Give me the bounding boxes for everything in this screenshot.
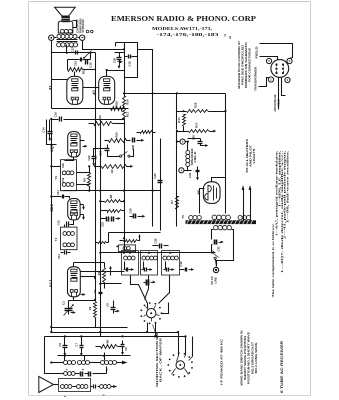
wire S1 down leads <box>147 323 149 333</box>
ground arrow right of 6Q7 <box>83 146 85 148</box>
capacitor C29 <box>133 214 135 219</box>
coil L6 <box>100 385 104 389</box>
svg-text:C28: C28 <box>131 144 135 150</box>
capacitor antenna C2 <box>93 385 95 389</box>
wire left column to bottom <box>51 120 53 333</box>
resistor R4 <box>101 345 118 349</box>
wire 41 plates top <box>74 72 76 77</box>
antenna triangle <box>39 377 54 393</box>
wire T5 secondary leads <box>212 230 214 240</box>
capacitor row y373 b <box>88 372 90 377</box>
svg-text:R17: R17 <box>195 122 199 128</box>
wire transformer right lead <box>78 37 80 39</box>
power transformer T5 secondary coil <box>214 225 218 229</box>
wire switch S1 leads <box>131 276 148 309</box>
svg-text:1—80, full-wave rectifier.: 1—80, full-wave rectifier. <box>285 151 289 223</box>
svg-text:C19: C19 <box>61 177 65 182</box>
svg-text:ON SPEAKER: ON SPEAKER <box>81 19 85 32</box>
svg-text:R14: R14 <box>177 117 181 123</box>
wire FIELD lead 2 <box>260 57 278 60</box>
capacitor C30 <box>117 57 122 59</box>
plug pin circled 4 <box>287 58 292 63</box>
variable capacitor C1 <box>65 308 73 310</box>
wire x100 long vertical <box>100 120 102 337</box>
capacitor C23 <box>158 180 163 182</box>
wire 6A7 grid top <box>73 263 75 267</box>
wire x176 vertical upper <box>176 94 178 130</box>
resistor R14b vertical in column <box>123 97 126 107</box>
T4 coil top <box>62 171 66 175</box>
capacitor C8b <box>111 307 116 309</box>
speaker terminal circles <box>86 30 89 33</box>
svg-text:T4: T4 <box>54 176 58 180</box>
wire 6D6 grounds <box>81 204 84 206</box>
svg-text:C17: C17 <box>56 190 60 196</box>
wire row y190 <box>63 190 161 192</box>
resistor R17 horizontal <box>189 130 210 133</box>
row2 coil <box>64 372 68 376</box>
ground arrow right of 6A7 <box>81 294 83 296</box>
osc coil 2 <box>142 256 146 260</box>
wire 6Q7 grid lead right <box>81 140 85 142</box>
svg-text:41: 41 <box>48 85 53 90</box>
svg-text:C9: C9 <box>124 347 128 351</box>
svg-text:LINE: LINE <box>214 277 218 284</box>
wire field top <box>187 142 189 151</box>
wire TRANSFORMER to plug <box>259 78 269 87</box>
capacitor row y373 a <box>80 372 82 377</box>
osc coil box 2 <box>141 251 158 276</box>
AC switch contacts <box>211 251 213 253</box>
heater wires with arrows <box>243 190 245 221</box>
capacitor C9b <box>121 344 125 346</box>
svg-text:R18: R18 <box>194 102 198 108</box>
antenna coil L4 <box>61 385 65 389</box>
osc coil 2 trimmer <box>144 268 146 272</box>
svg-text:R6: R6 <box>109 194 113 198</box>
svg-text:C10: C10 <box>57 220 61 226</box>
wire x176 vertical lower <box>176 132 178 227</box>
svg-text:C34: C34 <box>188 172 192 178</box>
svg-text:C26: C26 <box>153 238 157 244</box>
T3 coil bottom <box>63 243 67 247</box>
svg-text:C14: C14 <box>41 127 45 133</box>
svg-text:BACK , OF WAFER: BACK , OF WAFER <box>159 337 163 382</box>
capacitor C5 below box2 <box>146 280 148 286</box>
svg-text:C24: C24 <box>87 155 91 161</box>
capacitor C28 <box>132 138 134 143</box>
resistor R3 vertical <box>103 268 106 283</box>
tube V1 41 <box>67 76 83 104</box>
wire plug bottom lead 2 <box>282 78 286 96</box>
terminal circled 3 <box>180 139 185 144</box>
speaker voice coil (hatched) <box>62 17 70 22</box>
wire long bottom left <box>45 337 59 374</box>
resistor R15 <box>68 68 83 72</box>
svg-text:g: g <box>229 34 231 39</box>
resistor R18 horizontal <box>187 110 209 113</box>
padder box <box>119 245 136 252</box>
wire 6Q7 cathode <box>65 158 74 161</box>
resistor R26 <box>141 131 153 134</box>
osc coil 1 trimmer <box>126 268 128 272</box>
capacitor C15 <box>85 60 87 65</box>
rotary switch S2 wafer <box>176 361 185 370</box>
wire top right row y93 <box>125 93 226 95</box>
svg-text:C18: C18 <box>61 163 65 168</box>
svg-text:6 TUBE AC RECEIVER: 6 TUBE AC RECEIVER <box>280 340 284 393</box>
resistor R25 <box>108 210 122 213</box>
feedback box <box>116 43 138 78</box>
svg-text:C19: C19 <box>74 60 78 66</box>
svg-text:HOLE: HOLE <box>276 99 280 106</box>
resistor R13 vertical in column <box>123 109 126 120</box>
svg-text:C11: C11 <box>57 254 61 259</box>
svg-text:FOR CONNECTIONS: FOR CONNECTIONS <box>247 48 251 82</box>
antenna coil L2 <box>78 361 82 365</box>
svg-text:I-F PEAKED AT 456 KC: I-F PEAKED AT 456 KC <box>219 338 223 385</box>
svg-text:R14: R14 <box>125 99 129 104</box>
wire transformer center tap <box>66 45 68 53</box>
resistor R16 <box>111 107 125 111</box>
page scan border <box>29 1 311 3</box>
wire into box <box>115 43 117 47</box>
capacitor C32 <box>214 240 216 245</box>
wire bottom rows <box>52 332 179 334</box>
svg-text:T3: T3 <box>54 237 58 241</box>
svg-text:R10: R10 <box>115 132 119 138</box>
tube V4 6D6 <box>68 199 80 220</box>
svg-text:C30: C30 <box>112 57 116 63</box>
svg-text:C13: C13 <box>70 47 74 53</box>
svg-text:C16: C16 <box>53 112 57 118</box>
wire antenna upper row <box>59 373 64 375</box>
wire x160 vertical <box>160 139 162 231</box>
tube V5 6A7 <box>68 267 81 297</box>
resistor R24 <box>105 200 121 203</box>
svg-text:C3: C3 <box>93 289 97 293</box>
output transformer core <box>57 39 78 41</box>
wire T4 to R8 <box>77 172 90 174</box>
tube V3 6Q7 <box>68 132 80 157</box>
wire x225 vertical <box>225 94 227 214</box>
wire antenna row links <box>90 362 101 364</box>
plug pins <box>275 63 277 65</box>
osc coil box 3 <box>162 251 180 276</box>
svg-text:T5: T5 <box>181 215 185 219</box>
power transformer T5 primary coils <box>189 216 193 220</box>
resistor small y242 <box>98 242 107 244</box>
wire 6Q7 grid <box>49 120 51 128</box>
resistor R10 <box>109 139 127 143</box>
svg-text:R1: R1 <box>88 306 92 310</box>
svg-text:-174,-176,-180,-183: -174,-176,-180,-183 <box>157 32 220 37</box>
terminal circled 4 <box>179 168 184 173</box>
svg-text:R16: R16 <box>115 101 119 107</box>
svg-text:R8: R8 <box>83 178 87 182</box>
output transformer secondary top coil <box>57 34 61 38</box>
output transformer secondary bottom coil <box>57 43 61 47</box>
wire S2 up leads <box>178 333 180 356</box>
AC plug symbol <box>213 267 218 272</box>
wire transformer left lead <box>55 37 57 39</box>
svg-text:6A7: 6A7 <box>48 279 53 287</box>
T4 coil bottom <box>62 183 66 187</box>
plug pin circled 1 <box>268 77 273 82</box>
wire b+ row <box>52 52 96 54</box>
svg-text:C8: C8 <box>106 303 110 307</box>
plug pin circled 5 <box>266 58 271 63</box>
wire row y166 left <box>52 166 61 168</box>
wire tone net verticals <box>67 60 69 70</box>
output transformer primary coil <box>60 29 64 33</box>
resistor R8 vertical <box>88 173 91 187</box>
wire right column x124 <box>124 43 126 50</box>
wire 6Q7 plate row <box>94 149 108 153</box>
svg-text:TRANSFORMER: TRANSFORMER <box>254 66 258 91</box>
terminal circled D <box>80 35 85 40</box>
svg-text:FIELD: FIELD <box>193 151 197 162</box>
wire cathode bottom row <box>52 108 129 110</box>
IF transformer T3 box <box>61 227 78 250</box>
osc coil box 1 <box>122 251 139 276</box>
wire row y262 <box>74 262 105 264</box>
svg-text:C15: C15 <box>89 62 93 68</box>
wire x95 long vertical <box>95 53 97 301</box>
T3 coil top <box>63 232 67 236</box>
resistor R1 vertical <box>94 302 97 318</box>
plug pin circled 2 <box>285 77 290 82</box>
svg-text:NO.3 LONG WAVE: NO.3 LONG WAVE <box>254 342 258 373</box>
capacitor C18 in box <box>128 55 130 59</box>
wire 6D6 cathode <box>70 220 74 225</box>
resistor R14 vertical <box>183 115 186 127</box>
power transformer T5 core <box>186 220 257 224</box>
wire grid link between 41 tubes <box>83 87 99 89</box>
ground arrow in box <box>118 61 121 63</box>
svg-text:FIELD: FIELD <box>255 45 259 58</box>
svg-text:R7: R7 <box>170 200 174 204</box>
tone switch arm <box>85 51 92 58</box>
resistor R2 <box>102 165 127 169</box>
wire 6A7 plate leads <box>81 271 125 273</box>
terminal circled E <box>49 35 54 40</box>
svg-text:80: 80 <box>196 189 201 194</box>
wire coil row verticals <box>58 355 131 357</box>
svg-text:C25: C25 <box>192 135 196 141</box>
antenna coil L1 <box>64 361 68 365</box>
svg-text:EMERSON RADIO & PHONO. CORP: EMERSON RADIO & PHONO. CORP <box>111 15 257 23</box>
speaker plug body <box>271 60 289 78</box>
switch contacts mid <box>120 155 122 157</box>
antenna coil L3 <box>101 361 105 365</box>
wire heater column x152 <box>152 94 154 227</box>
wire FIELD to plug <box>260 44 293 59</box>
speaker driver housing <box>58 21 73 33</box>
resistor R5 <box>124 240 138 243</box>
resistor R12 <box>94 122 113 126</box>
svg-text:LIGHTS: LIGHTS <box>252 149 256 164</box>
svg-text:C7: C7 <box>74 343 78 347</box>
svg-text:R4: R4 <box>106 339 110 343</box>
capacitor C12 <box>185 268 187 272</box>
wire x124 long vertical lower <box>124 120 126 251</box>
capacitor C3 <box>99 292 103 294</box>
osc coil 1 <box>124 256 128 260</box>
speaker horn <box>55 7 76 16</box>
svg-text:MODELS AW171,-173,: MODELS AW171,-173, <box>152 26 212 31</box>
svg-text:R2: R2 <box>110 169 114 173</box>
osc coil 3 trimmer <box>166 268 168 272</box>
osc coil 3 <box>163 256 167 260</box>
svg-text:C29: C29 <box>128 208 132 213</box>
wire field bottom <box>185 167 188 171</box>
svg-text:C23: C23 <box>153 173 157 179</box>
svg-text:C1: C1 <box>61 301 65 305</box>
svg-text:C32: C32 <box>217 246 221 251</box>
capacitor C22 <box>106 217 108 222</box>
speaker field coil <box>186 151 190 155</box>
svg-text:R13: R13 <box>125 112 129 117</box>
svg-text:C18: C18 <box>128 61 132 67</box>
wire speaker to transformer box <box>73 21 77 28</box>
wire row y252.7 <box>101 252 216 254</box>
resistor R7 vertical <box>176 197 179 210</box>
wire 6A7 bottom lead <box>69 297 74 301</box>
antenna coil L5 <box>77 385 81 389</box>
ground arrow up x110 <box>110 269 112 272</box>
rotary switch S1 front wafer <box>147 309 156 318</box>
wire plug bottom lead <box>278 78 280 110</box>
tube V6 80 rectifier <box>203 182 220 204</box>
tube V2 41 <box>99 76 115 104</box>
wire row y119 <box>67 119 125 121</box>
wire row y232.4 <box>109 232 161 234</box>
IF transformer T4 box <box>61 160 77 191</box>
svg-text:C6: C6 <box>58 343 62 347</box>
svg-text:C12: C12 <box>179 261 183 267</box>
antenna coupling box <box>59 379 91 392</box>
wire rectifier plate leads <box>212 178 226 182</box>
